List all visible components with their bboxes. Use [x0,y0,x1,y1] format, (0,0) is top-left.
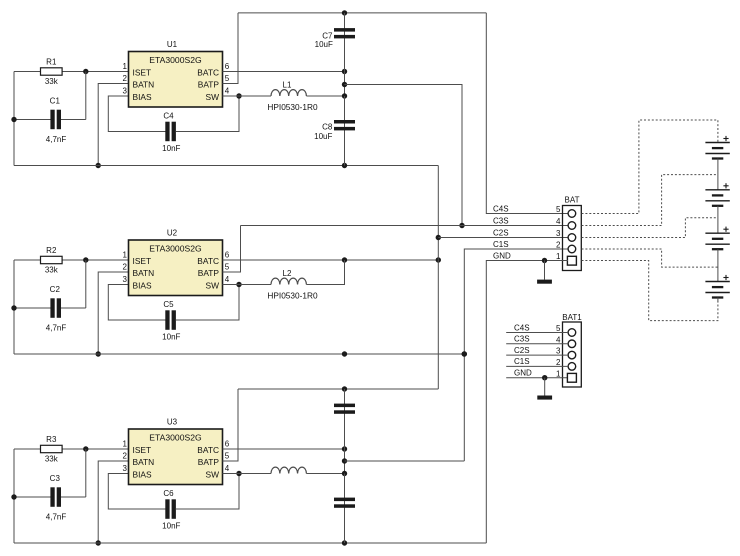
junction R3-ISET-C3 [83,446,88,451]
svg-text:1: 1 [123,250,128,259]
svg-text:U2: U2 [167,229,178,238]
svg-text:4: 4 [225,86,230,95]
wire BATN U1 to bottom rail [98,84,128,166]
capacitor C6 [165,499,176,519]
wire C3 right riser [85,449,87,497]
svg-text:5: 5 [556,205,561,214]
wire BIAS U1 to C4 [108,96,165,132]
svg-text:ETA3000S2G: ETA3000S2G [149,55,202,65]
svg-text:1: 1 [123,62,128,71]
wire BATN U2 to bottom rail [98,272,128,354]
wire C2 right lead [60,307,86,309]
junction C3S line [459,223,464,228]
svg-text:BAT1: BAT1 [562,313,582,322]
wire stub GND BAT1 [506,377,568,379]
svg-text:C4: C4 [163,111,174,120]
junction SW-L3 on rail [342,471,347,476]
pin circle 5 BAT [568,210,576,218]
junction SW-C6 U3 [236,471,241,476]
pin circle 2 BAT [568,245,576,253]
wire stub C3S BAT1 [506,343,568,345]
wire stub C1S BAT1 [506,365,568,367]
battery cell group 2 [705,183,729,206]
junction mid wire U1 [342,82,347,87]
wire C3 left lead [14,496,52,498]
wire U3 top rail [238,388,438,390]
wire dashed C1S to battery tap 3 [582,249,718,267]
svg-text:BIAS: BIAS [133,92,152,102]
capacitor C4 [165,122,176,142]
pin circle 3 BAT1 [568,351,576,359]
wire C4 to SW U1 [176,96,239,132]
svg-text:3: 3 [123,275,128,284]
wire dashed C2S to battery tap 2 [582,218,718,238]
wire rail segment BATC-SW U1 [344,72,346,97]
wire top rail (C4S net) [238,12,486,14]
svg-text:C3S: C3S [514,335,530,344]
svg-text:5: 5 [225,262,230,271]
svg-text:5: 5 [556,324,561,333]
wire BATC U1 to rail [223,71,345,73]
op-amp/IC U2 ETA3000S2G [129,240,223,296]
wire stub C2S BAT1 [506,354,568,356]
wire left vertical U2 section [13,260,15,354]
junction R1-ISET-C1 [83,69,88,74]
wire BATC U3 to rail [223,448,345,450]
junction R2-ISET-C2 [83,257,88,262]
resistor R1 [41,68,63,75]
svg-text:4,7nF: 4,7nF [46,135,67,144]
wire L3 to rail [306,473,344,475]
svg-text:L1: L1 [283,80,292,89]
svg-text:C3: C3 [50,474,61,483]
svg-text:C4S: C4S [514,323,530,332]
svg-text:5: 5 [225,451,230,460]
svg-text:3: 3 [123,86,128,95]
connector BAT body [563,206,582,271]
wire R3/ISET row [14,448,129,450]
wire rail segment C7 [344,13,346,72]
wire C2S to BAT pin3 [438,237,568,239]
svg-text:C6: C6 [163,489,174,498]
wire mid U3 node to C1S riser [345,460,465,462]
junction GND - ground symbol at BAT1 [542,375,547,380]
svg-text:C3S: C3S [493,216,509,225]
svg-text:4: 4 [556,335,561,344]
wire C1 right lead [60,119,86,121]
svg-text:2: 2 [556,358,561,367]
svg-text:2: 2 [123,74,128,83]
pin square 1 BAT [567,256,576,265]
svg-text:ISET: ISET [133,256,152,266]
capacitor C2 [50,298,61,318]
junction BATN U1 on bottom rail [96,163,101,168]
svg-text:BATP: BATP [198,79,220,89]
pin circle 4 BAT1 [568,340,576,348]
battery cell group 1 [705,136,729,159]
svg-text:10uF: 10uF [315,40,333,49]
svg-text:4,7nF: 4,7nF [46,513,67,522]
wire SW U2 to inductor [223,284,272,286]
pin circle 4 BAT [568,222,576,230]
wire C1S riser [464,249,568,461]
junction mid wire U3 [342,458,347,463]
wire dashed GND to battery - terminal [582,261,718,321]
wire bottom rail U3 section (GND net) [14,542,486,544]
svg-text:10nF: 10nF [162,144,180,153]
capacitor C3 [50,487,61,507]
junction GND - ground symbol at BAT [542,258,547,263]
svg-text:HPI0530-1R0: HPI0530-1R0 [267,102,318,112]
svg-text:2: 2 [123,451,128,460]
capacitor C5 [165,310,176,330]
svg-text:C4S: C4S [493,204,509,213]
wire R2/ISET row [14,259,129,261]
op-amp/IC U1 ETA3000S2G [129,52,223,108]
svg-text:4,7nF: 4,7nF [46,324,67,333]
wire GND from BAT pin1 riser [486,261,568,544]
svg-text:ISET: ISET [133,67,152,77]
wire left vertical U3 section [13,449,15,543]
wire BATN U3 to bottom rail [98,461,128,543]
op-amp/IC U3 ETA3000S2G [129,429,223,485]
battery cell group 3 [705,227,729,250]
junction BATN U2 on bottom rail [96,351,101,356]
wire rail segment C8 [344,96,346,166]
wire C3 right lead [60,496,86,498]
pin circle 3 BAT [568,234,576,242]
svg-text:R2: R2 [46,246,57,255]
svg-text:BATN: BATN [133,268,155,278]
wire BATC U2 to main vertical [223,259,439,261]
wire C2 right riser [85,260,87,308]
ground symbol at BAT1 [537,378,552,400]
junction left rail-C1 [11,117,16,122]
svg-text:ETA3000S2G: ETA3000S2G [149,244,202,254]
svg-text:1: 1 [556,252,561,261]
svg-text:2: 2 [123,262,128,271]
pin square 1 BAT1 [567,373,576,382]
wire L2 riser to BATC U2 [306,260,344,285]
svg-text:C2S: C2S [493,228,509,237]
svg-text:BATC: BATC [197,256,219,266]
svg-text:10uF: 10uF [314,132,332,141]
capacitor C8 [334,120,355,130]
resistor R3 [41,445,63,452]
svg-text:SW: SW [206,280,220,290]
svg-text:3: 3 [556,347,561,356]
wire dashed C4S to battery + terminal [582,120,718,214]
svg-text:10nF: 10nF [162,332,180,341]
wire left vertical U1 section [13,72,15,166]
junction rail-cap U3 section [342,540,347,545]
svg-text:1: 1 [556,369,561,378]
svg-text:4: 4 [556,217,561,226]
wire BATP U3 riser [223,389,239,461]
wire C2 left lead [14,307,52,309]
svg-text:3: 3 [123,464,128,473]
svg-text:3: 3 [556,229,561,238]
svg-text:4: 4 [225,464,230,473]
junction BATC U2 - L2 riser [342,257,347,262]
inductor L1 [271,90,306,96]
junction BATC U1 on rail [342,69,347,74]
pin circle 5 BAT1 [568,329,576,337]
junction BATC U3 on rail [342,446,347,451]
svg-text:C2S: C2S [514,346,530,355]
wire dashed C3S to battery tap 1 [582,175,718,226]
svg-text:R3: R3 [46,435,57,444]
wire battery link 2 [717,206,719,233]
capacitor C1 [50,110,61,130]
svg-text:BATP: BATP [198,268,220,278]
svg-text:1: 1 [123,439,128,448]
wire C3S net to BAT pin4 [241,225,569,227]
capacitor C7 [334,28,355,38]
junction SW-C5 U2 [236,282,241,287]
svg-text:C2: C2 [50,285,61,294]
svg-text:33k: 33k [45,266,59,275]
wire L1 to rail [306,95,344,97]
wire C1 right riser [85,72,87,120]
svg-text:U1: U1 [167,40,178,49]
svg-text:ISET: ISET [133,445,152,455]
junction C2S on main vertical [436,235,441,240]
ground symbol at BAT [537,261,552,284]
svg-text:BATN: BATN [133,79,155,89]
wire mid U1 node down to C3S [345,85,463,226]
svg-text:6: 6 [225,250,230,259]
resistor R2 [41,256,63,263]
svg-text:GND: GND [493,251,511,260]
svg-text:C5: C5 [163,300,174,309]
wire bottom rail U2 section [14,353,464,355]
wire bottom rail U1 section (BATN net) [14,165,438,167]
junction U3 top rail - cap [342,386,347,391]
svg-text:6: 6 [225,62,230,71]
svg-text:ETA3000S2G: ETA3000S2G [149,433,202,443]
wire battery link 1 [717,159,719,190]
svg-text:U3: U3 [167,418,178,427]
wire C5 to SW U2 [176,285,239,321]
svg-text:C8: C8 [322,123,333,132]
wire C1 left lead [14,119,52,121]
svg-text:GND: GND [514,369,532,378]
wire R1/ISET row [14,71,129,73]
wire stub C4S BAT1 [506,332,568,334]
junction top rail - C7 [342,10,347,15]
svg-text:BATC: BATC [197,445,219,455]
svg-text:BATC: BATC [197,67,219,77]
svg-text:SW: SW [206,469,220,479]
wire BATP U2 riser [223,226,241,273]
svg-text:5: 5 [225,74,230,83]
wire main vertical (C2S net) [437,166,439,390]
svg-text:2: 2 [556,241,561,250]
wire SW U3 to inductor [223,473,272,475]
wire rail segment BATC-SW U3 [344,449,346,474]
inductor L3 (unlabeled) U3 [271,467,306,473]
capacitor lower (unlabeled) U3 section [334,498,355,508]
wire C4S drop to BAT pin5 [486,13,568,214]
pin circle 2 BAT1 [568,363,576,371]
junction left rail-C3 [11,494,16,499]
inductor L2 [271,278,306,284]
svg-text:BATP: BATP [198,457,220,467]
junction BATC U2 on main vertical [436,257,441,262]
svg-text:BIAS: BIAS [133,469,152,479]
wire C6 to SW U3 [176,474,239,510]
svg-text:33k: 33k [45,455,59,464]
wire BIAS U2 to C5 [108,285,165,321]
svg-text:C1S: C1S [493,240,509,249]
wire BATP U1 riser [223,13,239,84]
wire BIAS U3 to C6 [108,474,165,510]
wire SW U1 to inductor [223,95,272,97]
junction SW-L1 on rail [342,93,347,98]
svg-text:33k: 33k [45,77,59,86]
svg-text:C1: C1 [50,97,61,106]
junction U2 rail - C1S riser [462,351,467,356]
junction rail-cap U2 section [342,351,347,356]
wire battery link 3 [717,249,719,281]
junction C1S riser - U2 rail [462,351,467,356]
svg-text:HPI0530-1R0: HPI0530-1R0 [267,291,318,301]
svg-text:10nF: 10nF [162,521,180,530]
wire battery bottom stub [717,298,719,303]
svg-text:6: 6 [225,439,230,448]
junction left rail-C2 [11,305,16,310]
wire rail segment upper cap U3 [344,389,346,449]
svg-text:BATN: BATN [133,457,155,467]
battery cell group 4 [705,275,729,298]
svg-text:4: 4 [225,275,230,284]
connector BAT1 body [563,322,582,387]
svg-text:L2: L2 [283,269,292,278]
junction SW-C4 U1 [236,93,241,98]
svg-text:SW: SW [206,92,220,102]
wire rail segment lower cap U3 [344,474,346,544]
capacitor upper (unlabeled) U3 section [334,404,355,414]
svg-text:R1: R1 [46,57,57,66]
svg-text:BIAS: BIAS [133,280,152,290]
svg-text:C1S: C1S [514,357,530,366]
svg-text:BAT: BAT [565,195,580,204]
junction BATN U3 on bottom rail [96,540,101,545]
junction rail-cap U1 section [342,163,347,168]
